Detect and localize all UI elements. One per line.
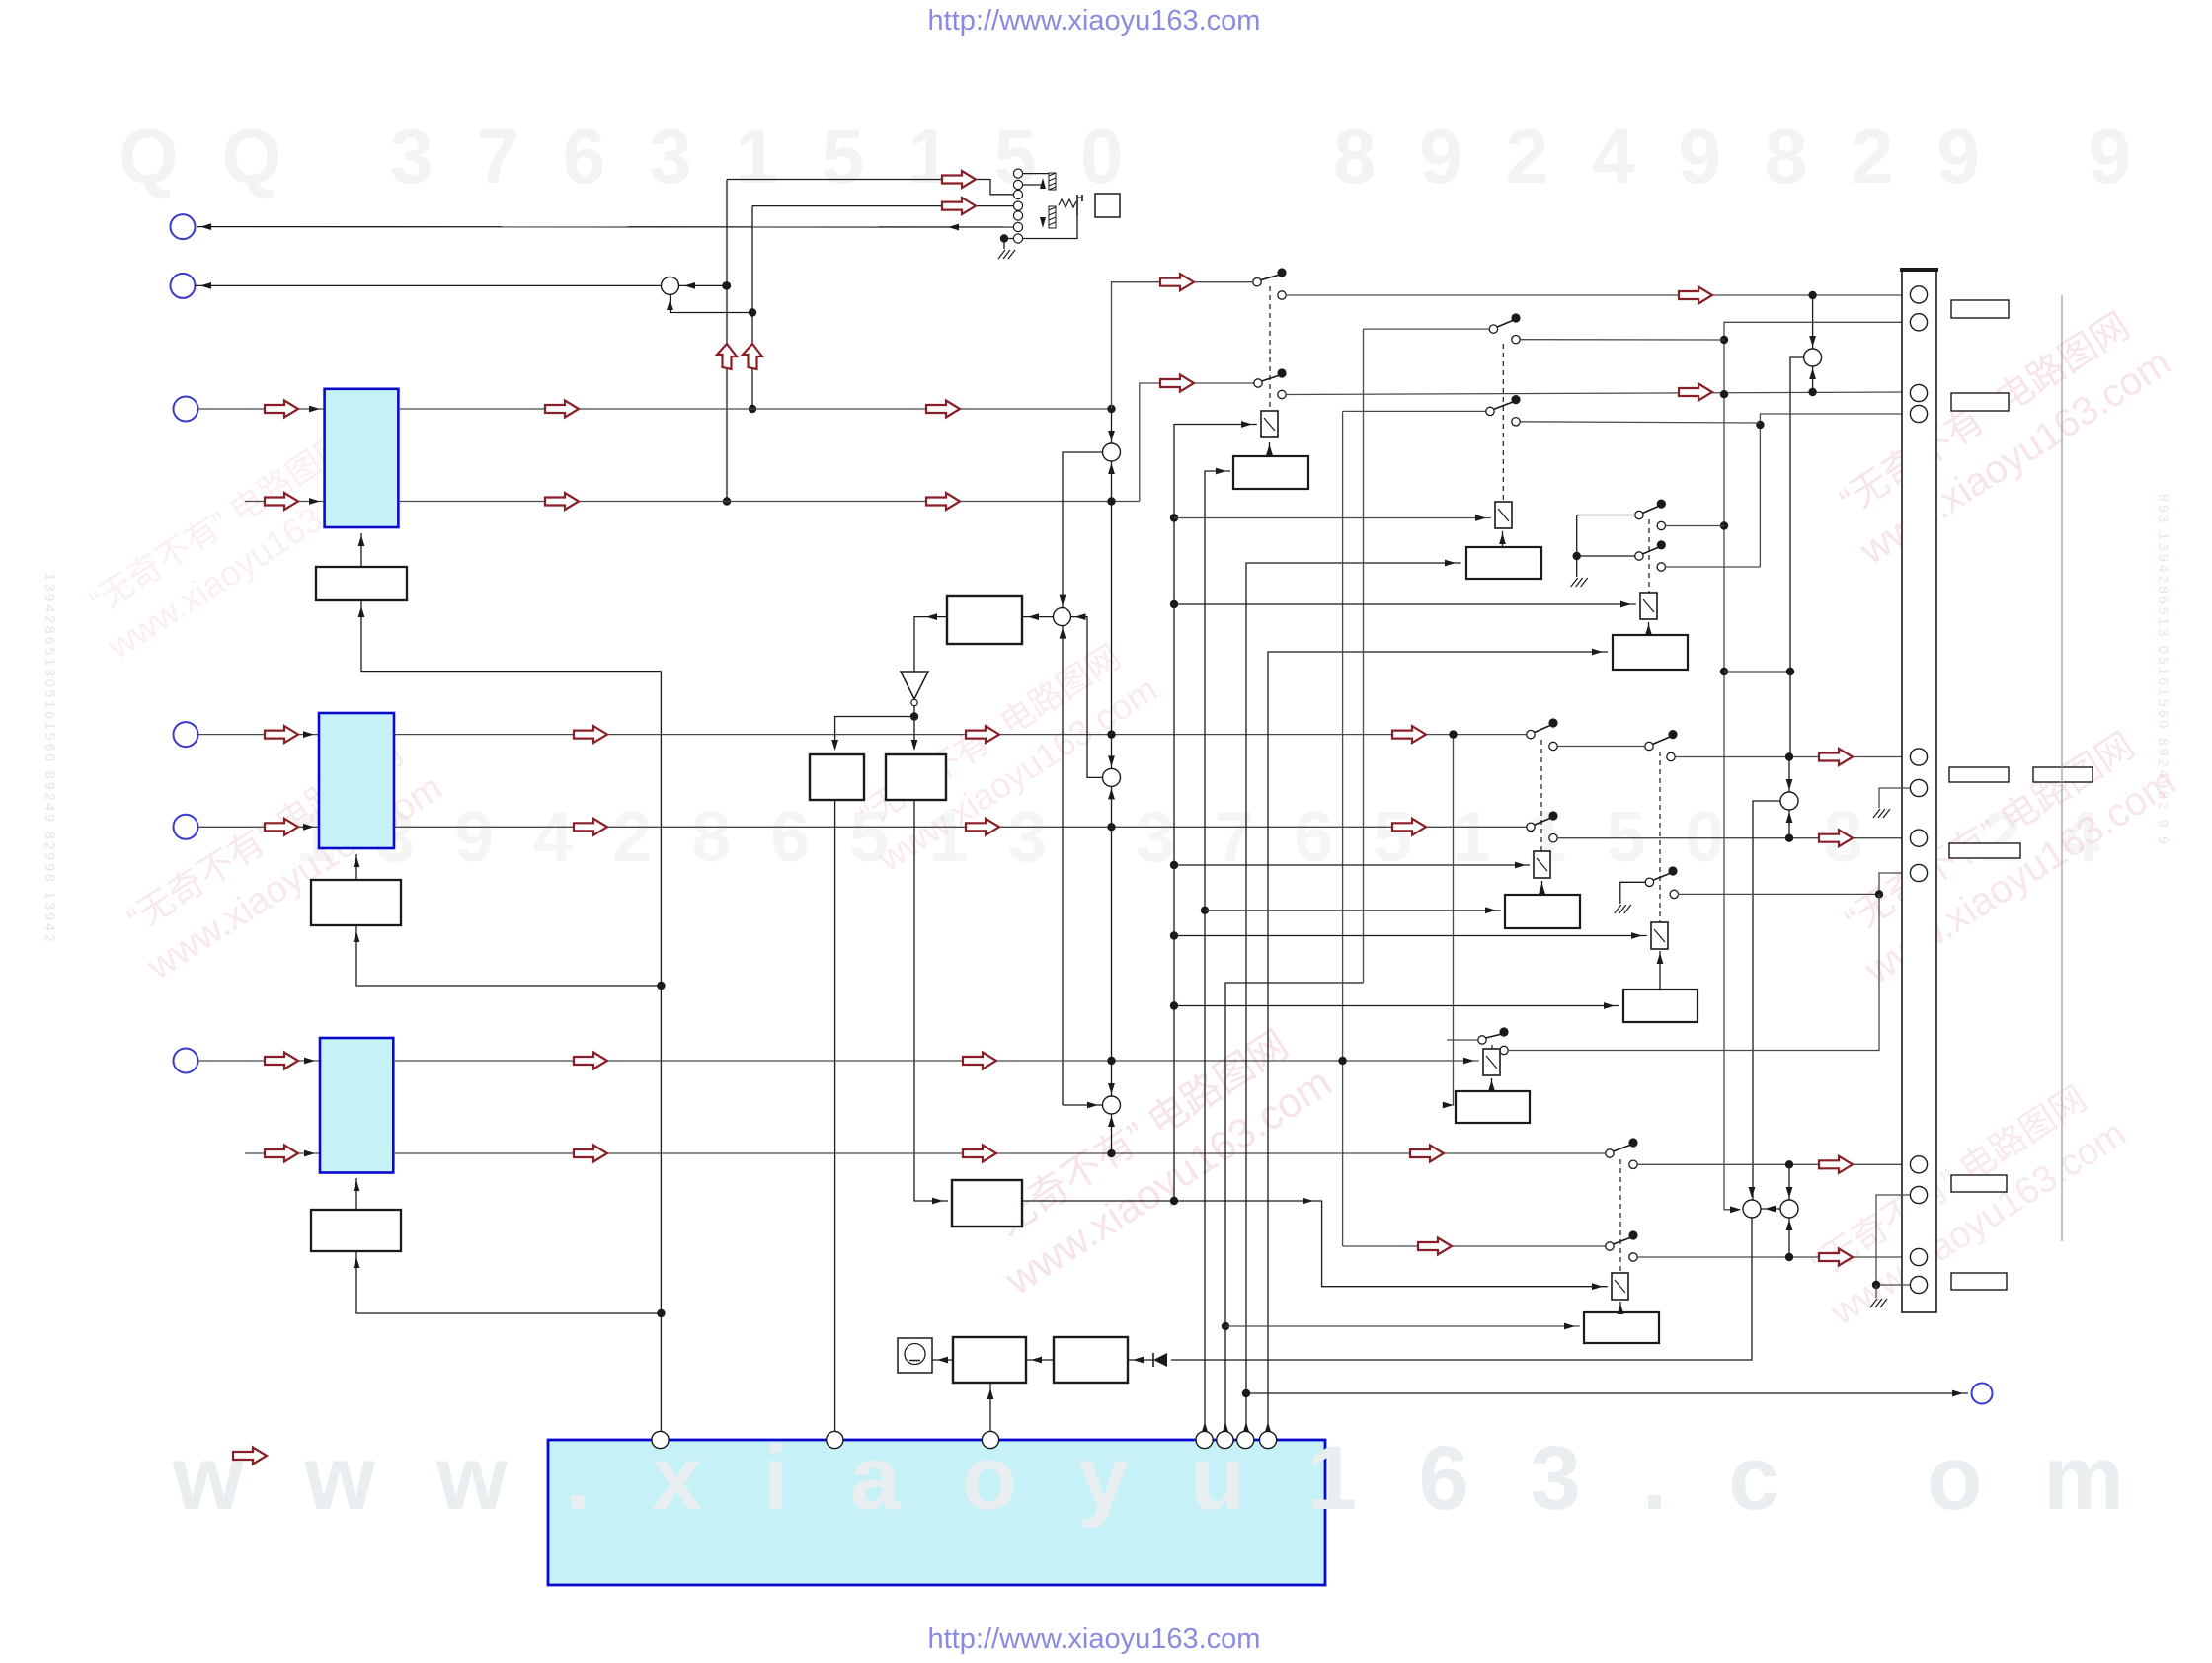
wire SWL feed [1343,1245,1606,1247]
block B1 [325,389,399,527]
block B2 [319,713,394,848]
switch SWI [1645,730,1678,761]
box C4 [1584,1312,1659,1343]
box CB [1466,547,1541,579]
wire M5 top [1788,1164,1790,1200]
inverter U1 [901,672,928,699]
terminal CN7 [1972,1384,1993,1404]
terminal CN3 [174,397,198,422]
ground SWF [1615,905,1631,913]
wire CC to RC [1648,622,1650,635]
label box LB2 [1951,393,2009,411]
jack sleeve line [1076,195,1078,216]
pin circle P4 [1196,1431,1213,1448]
arrow jack1 [942,171,976,188]
arrow in3b [265,1146,298,1162]
arrow out2a2 [966,726,999,743]
wire M4 out [1171,1218,1752,1360]
wire B3 out2 [393,1152,1606,1154]
wire MT to W4 [1022,616,1054,618]
wire SWH-SWI [1557,746,1645,748]
pin circle P7 [1260,1431,1277,1448]
arrow out1a2 [926,401,960,418]
wire SWC pivot feeds [1577,515,1635,516]
up arrow on V736 [717,344,737,369]
box CC [1613,635,1688,670]
arrow out2a1 [574,726,607,743]
arrow out1a1 [545,401,579,418]
label box LB7 [1951,1273,2007,1290]
wire B2 out1 [394,734,1527,736]
wire M7 top [1812,295,1814,349]
wire SWF pivot feed [1620,882,1645,904]
bus V1125 mixers column [1111,409,1113,1153]
mixer M1 [1103,443,1121,461]
wire CN4 to B2 [197,734,319,736]
arrow out2b3 [1392,819,1426,835]
bus V736 [726,180,728,502]
dashed SWC-RC [1648,519,1650,593]
pin circle P3 [982,1431,998,1448]
relay RF [1651,922,1668,949]
dashed SWM-SWBu-RB [1502,344,1504,502]
relay RA [1261,411,1278,437]
wire CE input [1205,910,1501,911]
wire SWG pivot stub [1447,1039,1478,1041]
wire CA to RA [1269,442,1271,456]
up arrow on V762 [743,344,762,369]
terminal CN6 [174,1049,198,1073]
arrow out3a1 [574,1053,607,1069]
ground SWC [1571,578,1588,587]
arrow out2b1 [574,819,607,835]
connector bar [1902,270,1936,1312]
arrow in1a [265,401,298,418]
mixer MT [1054,608,1071,626]
bus V762 [751,206,753,409]
switch SWF [1645,866,1678,898]
wire CF input [1174,1005,1619,1007]
wire M2 to MT [1071,617,1103,778]
wire headphone return [197,226,1014,228]
dashed SWI-SWF-RF [1659,752,1661,931]
wire pin6 ground [1879,788,1910,808]
wire W1 feedback [361,600,661,672]
switch SW1 [1253,268,1287,299]
watermark pink 3 [845,631,1164,880]
bus V845 boxL down [834,800,836,1433]
wire diode to boxMB [1128,1359,1153,1361]
label box LB5 [1949,843,2020,858]
wire MA to motor [932,1359,953,1361]
wire SW2 contact to pin3 [1286,392,1910,395]
wire V1076 lower [1062,626,1064,1105]
box W4 master [947,596,1022,644]
wire C4 input [1225,1325,1580,1327]
arrow out3b1 [574,1146,607,1162]
svg-text:139428651305161560 89249 8299: 139428651305161560 89249 82998 13942 [42,573,58,945]
wire W2 feedback [356,925,661,986]
dashed SW1-SW2-RA [1269,286,1271,411]
arrow into CN2 [200,282,211,289]
wire SWF contact [1679,873,1911,894]
svg-text:http://www.xiaoyu163.com: http://www.xiaoyu163.com [928,5,1261,37]
dashed SWH-SWJ-RE [1540,740,1542,851]
switch SWK [1606,1138,1638,1168]
jack wiper up triangle [1040,178,1046,189]
arrow in2a [265,726,298,743]
mixer M5 [1780,1200,1798,1218]
bus V1360 [1342,411,1344,1246]
wire B1 line2 left [245,501,325,503]
watermark pink 1 [75,419,394,668]
bus V1220 [1205,471,1230,1433]
wire SWM pivot feed [1364,328,1490,330]
arrow in2b [265,819,298,835]
arrow in3a [265,1053,298,1069]
wire CG input [1452,735,1454,1105]
connector pin circles [1910,286,1927,1294]
ground pin12 [1870,1299,1887,1307]
wire V1076 upper arrowhead [1060,595,1066,606]
wire SWI out [1675,756,1910,758]
wire pin2 feed V1746 [1724,322,1910,1210]
wire M7 bottom [1812,366,1814,392]
wire V1746 to V1813 link [1724,671,1790,673]
wire MB to MA [1026,1359,1054,1361]
wire B1 out1 [398,408,1111,410]
arrow out1b1 [545,493,579,510]
wire CN2 to mixer [195,284,662,286]
wire SWL out [1637,1256,1910,1258]
mixer M0 [662,277,679,294]
pin circle P5 [1217,1431,1233,1448]
wire B2 out2 [394,826,1527,828]
box CA [1233,456,1308,489]
up arrowheads on buses [1202,1422,1209,1433]
wire to boxR [913,717,915,750]
jack wire c7 to sleeve [1022,216,1077,239]
wire CE to RE [1541,881,1543,895]
arrow out3b2 [963,1146,996,1162]
motor M [898,1338,932,1373]
wire B3 line2 left [245,1152,320,1154]
wire SWJ out [1557,837,1910,839]
arrow sw1 [1160,274,1194,290]
arrow out3a2 [963,1053,996,1069]
switch SWL [1606,1230,1638,1261]
arrow out2b2 [966,819,999,835]
pin circle P1 [652,1431,669,1448]
wire SWBu contact [1520,422,1760,423]
wire CN6 to B3 [197,1060,320,1062]
wire SWM contact [1520,339,1724,341]
wire M7 out V1813 [1790,357,1804,757]
wire SWBu pivot feed [1343,410,1486,412]
wire V1775 into M4 [1749,1187,1756,1198]
wire CF to RF [1659,951,1661,990]
legend arrow [233,1448,267,1465]
relay RC [1640,593,1657,619]
ground pin6 [1873,809,1890,818]
label box LB3 [1949,767,2009,782]
wire M1 out to V1076 [1063,452,1103,608]
jack hatched bar top [1049,173,1056,190]
bus V926 boxR down [914,800,948,1201]
ground jack [998,250,1015,259]
arrow sw2 [1160,375,1194,392]
relay RE [1534,851,1550,878]
mixer M4 [1743,1200,1761,1218]
box W2 [311,880,401,925]
svg-text:89249829 9: 89249829 9 [1333,113,2174,199]
wire SWC2 contact [1666,566,1761,568]
arrow out3b3 [1410,1146,1444,1162]
mixer M2 [1103,768,1121,786]
terminal CN5 [174,815,198,839]
switch SWBu [1486,395,1521,426]
switch SWM [1489,313,1520,344]
wire inverter out [913,706,915,717]
wire M3 arrowheads [1107,1057,1115,1065]
wire M6 out V1775 [1753,801,1780,1200]
wire SWK out [1637,1163,1910,1165]
wire CN3 to B1 [197,408,325,410]
wire M2 arrowheads [1107,730,1115,738]
jack contact pins [1013,169,1022,243]
arrow jack2 [942,198,976,214]
wire W3 to B3 [355,1178,357,1210]
wire C4 to R4 [1619,1302,1621,1312]
wire W3 feedback [356,1251,661,1313]
watermark pink 4 [968,1014,1340,1305]
separator line right [2061,295,2063,1241]
wire pin10-12 ground [1876,1195,1910,1285]
arrow pin3 [1679,384,1712,401]
jack plug box [1095,194,1120,217]
wire W2 to B2 [355,854,357,880]
wire B1 out2 [398,501,1139,503]
svg-text:QQ 376315150: QQ 376315150 [118,113,1166,199]
switch SW2 [1254,368,1287,398]
wire B3 out1 [393,1060,1479,1062]
wire M5 bottom [1788,1218,1790,1257]
mixer M7 [1804,349,1822,366]
block B3 [320,1038,393,1173]
arrow in1b [265,493,298,510]
wire M3 left [1063,1104,1103,1106]
wire V1125 to SW1 [1112,282,1253,409]
wire M1 arrowheads [1107,405,1115,413]
watermark pink 5 [1824,297,2178,574]
wire to boxL [835,717,914,750]
switch SWC1 [1635,500,1666,530]
svg-text:http://www.xiaoyu163.com: http://www.xiaoyu163.com [928,1623,1261,1655]
wire RB input [1174,517,1491,519]
label box LB1 [1951,300,2009,318]
wire SW1 contact to pin1 [1286,294,1910,296]
arrow pin1 [1679,287,1712,304]
svg-text:www.xiaoyu163.c om: www.xiaoyu163.c om [172,1428,2185,1529]
arrow pin5 [1819,749,1853,765]
wire W5 out [1022,1201,1608,1287]
arrow out2a3 [1392,726,1426,743]
switch SWH [1527,718,1558,750]
wire CB to RB [1502,531,1504,547]
arrow pin7 [1819,830,1853,846]
wire SWC1 contact [1666,525,1725,527]
box W3 [311,1210,401,1251]
box CE [1505,895,1580,928]
wire M0 bottom input [671,294,753,312]
wire RC input [1174,603,1636,605]
wire RE input [1174,864,1530,866]
arrow swl [1418,1238,1452,1255]
switch SWG [1478,1027,1509,1054]
box CF [1623,990,1698,1022]
jack wire c2 [1022,184,1043,186]
relay R4 [1612,1273,1628,1300]
jack tip contact wire c1 [1022,173,1049,175]
label box LB4 [2033,767,2093,782]
wire to CN7 [1246,1392,1968,1394]
watermark pink 7 [1795,1070,2133,1334]
wire M5 to M4 [1761,1208,1780,1210]
wire jack line2 [752,205,942,207]
jack hatched bar bottom [1049,206,1056,228]
bus V1189 [1174,425,1257,1202]
wire RF input [1174,935,1647,937]
pin circle P2 [827,1431,843,1448]
wire M6 bottom [1788,810,1790,838]
pin circle P6 [1237,1431,1254,1448]
wire MA bottom pin [989,1383,991,1433]
wire W1 to B1 [360,533,362,567]
wire SWG contact [1508,894,1879,1050]
bus V1241 [1225,983,1364,1433]
jack ground wire [1004,238,1014,240]
wire pin4 feed V1782 [1760,414,1910,567]
wire W4 out to inverter [914,617,947,672]
dashed SWG-RG [1491,1045,1493,1049]
terminal CN4 [174,722,198,747]
terminal CN2 [171,274,196,298]
diode D1 [1153,1353,1167,1367]
bus V669 [660,672,662,1433]
jack wiper down triangle [1040,217,1046,228]
dashed SWK-SWL-R4 [1619,1159,1621,1273]
watermark pink 2 [112,725,449,989]
wire M0 right input [679,284,727,286]
switch SWC2 [1635,540,1666,571]
jack resistor zigzag [1059,199,1076,207]
switch SWJ [1527,811,1558,842]
wire jack line1 [727,179,942,181]
relay RB [1495,502,1512,528]
arrow out1b2 [926,493,960,510]
terminal CN1 [171,214,196,239]
wire M6 top [1788,757,1790,793]
bus V1380 [1363,329,1365,983]
relay RG [1483,1049,1500,1075]
mixer M3 [1103,1096,1121,1114]
box W1 [316,567,407,600]
label box LB6 [1951,1175,2007,1192]
bus V1284 [1268,652,1608,1433]
wire CN5 to B2 [197,826,319,828]
mixer M6 [1780,792,1798,810]
box W5 control [952,1180,1022,1227]
box MA [953,1337,1026,1383]
bus V1262 [1246,563,1461,1433]
arrow pin9 [1819,1156,1853,1173]
box EQL [810,754,864,800]
box MB [1054,1337,1128,1383]
box CG [1456,1091,1530,1123]
arrow into CN1 [200,223,211,230]
box EQR [886,754,946,800]
arrow pin11 [1819,1249,1853,1266]
wire CG to RG [1491,1078,1493,1091]
watermark pink 6 [1829,717,2183,993]
block BIG system control [548,1440,1325,1585]
wire SW2 feed [1140,383,1254,502]
